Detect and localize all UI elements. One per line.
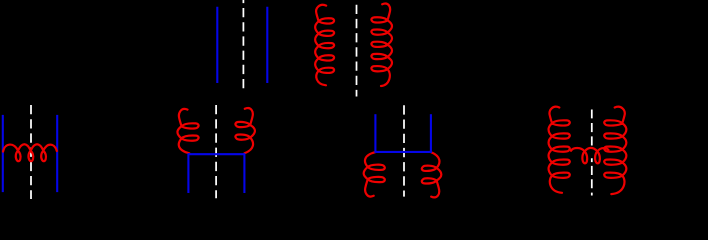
- transformer T4 wire: horizontal bar: [188, 153, 244, 155]
- transformer T6 winding L1 (red coil): [549, 107, 570, 193]
- transformer T4 winding L1 (red coil): [177, 109, 198, 153]
- transformer T5 core (white dashed line): [403, 105, 405, 196]
- transformer T3 secondary winding (blue line): [56, 115, 58, 192]
- transformer T2 primary winding L1 (red coil): [315, 5, 334, 86]
- transformer T3 tertiary winding (red horizontal coil): [3, 144, 57, 161]
- transformer T1 secondary winding (blue line): [266, 7, 268, 83]
- transformer T6 core (white dashed line): [591, 110, 593, 196]
- transformer T5 wire: horizontal bar: [375, 151, 431, 153]
- transformer T5 winding L1 (red coil): [364, 152, 385, 196]
- transformer T5 wire: right leg up: [430, 114, 432, 153]
- transformer T2 core (white dashed line): [356, 5, 358, 97]
- transformer T1 primary winding (blue line): [216, 7, 218, 83]
- transformer T1 core (white dashed line): [242, 0, 244, 91]
- transformer T2 secondary winding L2 (red coil): [371, 4, 392, 86]
- transformer T4 wire: left leg down: [187, 153, 189, 193]
- transformer T3 core (white dashed line): [30, 105, 32, 199]
- transformer T6 winding L2 (red coil): [604, 107, 626, 194]
- transformer T5 wire: left leg up: [374, 114, 376, 153]
- transformer T6 winding L3 (red horizontal coil): [571, 148, 608, 163]
- transformer T4 wire: right leg down: [243, 153, 245, 193]
- transformer T4 winding L2 (red coil): [235, 108, 255, 153]
- transformer T4 core (white dashed line): [215, 105, 217, 198]
- transformer T3 primary winding (blue line): [2, 115, 4, 192]
- transformer T5 winding L2 (red coil): [422, 152, 442, 197]
